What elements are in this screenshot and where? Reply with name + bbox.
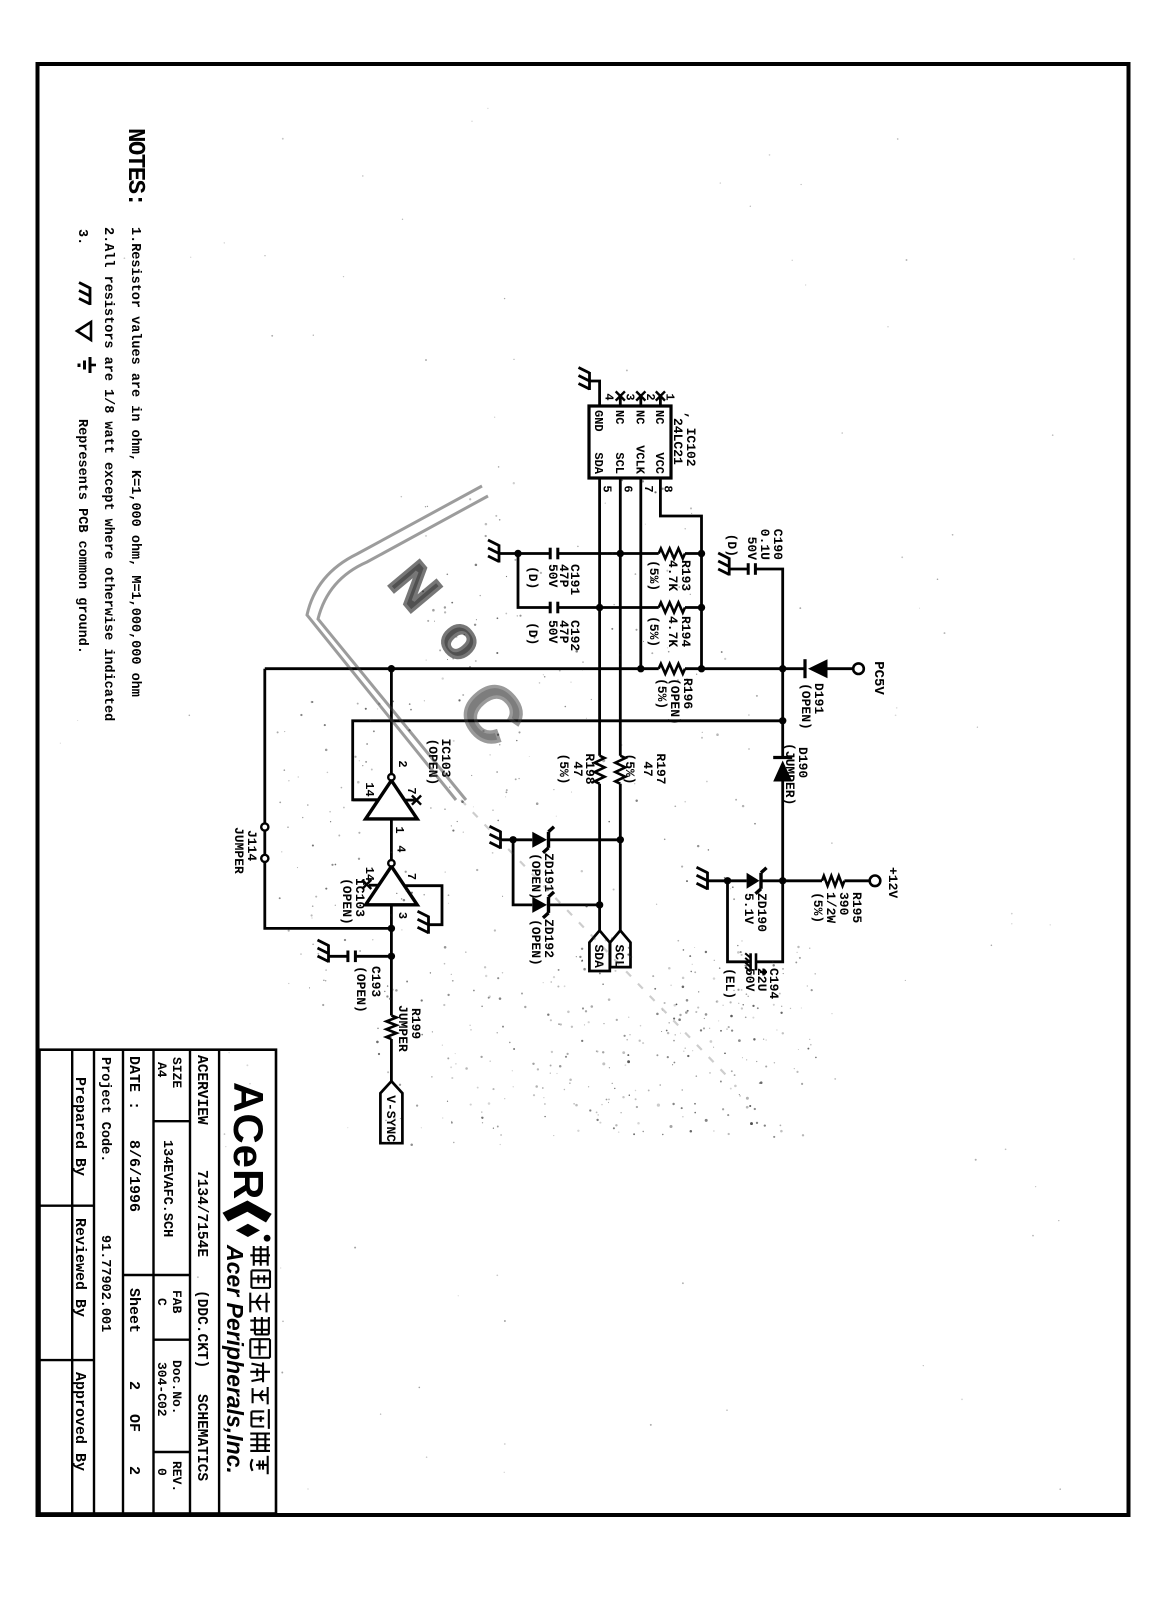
svg-text:A4: A4 bbox=[154, 1062, 169, 1078]
svg-text:SIZE: SIZE bbox=[169, 1057, 184, 1088]
note 3 signal ground symbol bbox=[77, 322, 91, 340]
svg-text:GND: GND bbox=[591, 410, 605, 432]
ground for gate2 pin7 bbox=[427, 916, 430, 934]
wire gate1 output to VCLK net bbox=[390, 669, 393, 775]
svg-text:2.All resistors are 1/8 watt e: 2.All resistors are 1/8 watt except wher… bbox=[100, 227, 115, 721]
resistor R196 (OPEN) bbox=[659, 664, 685, 674]
svg-text:3: 3 bbox=[395, 912, 409, 919]
svg-text:(5%): (5%) bbox=[556, 753, 571, 784]
zener ZD191 (OPEN) bbox=[532, 832, 547, 848]
svg-text:JUMPER: JUMPER bbox=[231, 827, 246, 874]
flag SDA bbox=[589, 931, 609, 972]
junction rail end bbox=[698, 665, 705, 672]
svg-text:NC: NC bbox=[632, 410, 646, 424]
svg-text:(5%): (5%) bbox=[810, 892, 825, 923]
resistor R193 SCL pullup bbox=[685, 552, 702, 555]
junction rail-R193 bbox=[698, 550, 705, 557]
svg-text:5.1V: 5.1V bbox=[741, 893, 756, 924]
gate2 output wire bbox=[390, 905, 393, 1016]
svg-text:Approved By: Approved By bbox=[71, 1372, 88, 1471]
junction ZD190 ground node bbox=[724, 877, 731, 884]
svg-text:47: 47 bbox=[640, 761, 655, 777]
diode D191 (OPEN) bbox=[808, 659, 828, 678]
svg-text:5: 5 bbox=[600, 485, 614, 492]
capacitor C191 bbox=[556, 548, 559, 560]
svg-text:(D): (D) bbox=[724, 534, 739, 557]
svg-text:4: 4 bbox=[602, 393, 616, 400]
junction SCL-R193 bbox=[617, 550, 624, 557]
wire D190 line bbox=[781, 669, 784, 758]
svg-text:(OPEN): (OPEN) bbox=[798, 683, 813, 730]
flag SCL bbox=[610, 931, 630, 968]
svg-text:4.7K: 4.7K bbox=[665, 616, 680, 647]
svg-text:1: 1 bbox=[662, 393, 676, 400]
svg-text:(5%): (5%) bbox=[646, 616, 661, 647]
C194 plus sign bbox=[762, 969, 764, 976]
svg-text:(OPEN): (OPEN) bbox=[339, 878, 354, 925]
svg-text:C: C bbox=[154, 1298, 169, 1306]
svg-text:304-C02: 304-C02 bbox=[154, 1362, 169, 1417]
wire VCLK net down to J114 bbox=[263, 669, 266, 824]
svg-text:(D): (D) bbox=[525, 622, 540, 645]
wire D191 to VCLK node bbox=[685, 667, 805, 670]
junction ZD191-ZD192 ground node bbox=[509, 836, 516, 843]
svg-text:(EL): (EL) bbox=[722, 968, 737, 999]
svg-text:NOTES:: NOTES: bbox=[121, 128, 148, 205]
title block frame bbox=[40, 1050, 277, 1514]
wire VCC pin8 to pullup rail bbox=[660, 478, 701, 669]
junction C190/D190 branch bbox=[779, 665, 786, 672]
resistor R199 JUMPER bbox=[386, 1016, 396, 1040]
note 3 earth ground symbol bbox=[89, 357, 92, 373]
svg-text:(5%): (5%) bbox=[654, 678, 669, 709]
svg-text:Reviewed By: Reviewed By bbox=[71, 1218, 88, 1317]
capacitor C193 (OPEN) bbox=[354, 951, 357, 963]
svg-text:VCLK: VCLK bbox=[632, 445, 646, 475]
svg-text:2: 2 bbox=[125, 1466, 142, 1475]
inverter IC103 gate A bbox=[366, 780, 418, 819]
junction rail-R194 bbox=[698, 604, 705, 611]
svg-text:JUMPER: JUMPER bbox=[395, 1005, 410, 1052]
wire C194 loop bbox=[728, 881, 751, 962]
ground for C193 bbox=[327, 945, 330, 963]
svg-text:8/6/1996: 8/6/1996 bbox=[125, 1140, 142, 1212]
junction gate2out-J114 bbox=[388, 925, 395, 932]
resistor R197 on SCL bbox=[615, 756, 625, 784]
wire J114 to gate2 output bbox=[265, 862, 392, 928]
junction SCL-ZD191 bbox=[617, 836, 624, 843]
title block vertical dividers bbox=[154, 1120, 191, 1122]
gate1 pin14 stub bbox=[353, 798, 379, 801]
wire ZD191 from SCL bbox=[549, 838, 621, 841]
capacitor C190 bbox=[754, 563, 757, 575]
svg-text:+12V: +12V bbox=[885, 867, 900, 898]
svg-text:Acer Peripherals,Inc.: Acer Peripherals,Inc. bbox=[222, 1244, 248, 1474]
svg-text:SDA: SDA bbox=[591, 452, 605, 474]
svg-text:(OPEN): (OPEN) bbox=[353, 966, 368, 1013]
resistor R195 bbox=[822, 876, 844, 886]
Acer gem logo chevron bbox=[223, 1201, 272, 1223]
Acer gem logo dot bbox=[264, 1235, 271, 1242]
photocopy speckle noise bbox=[60, 108, 1075, 1490]
svg-text:2: 2 bbox=[125, 1381, 142, 1390]
svg-text:VCC: VCC bbox=[652, 452, 666, 474]
svg-text:REV.: REV. bbox=[169, 1461, 184, 1492]
capacitor C192 bbox=[558, 606, 600, 609]
resistor R194 SDA pullup bbox=[685, 606, 702, 609]
note 3 PCB ground symbol bbox=[89, 287, 92, 305]
zener ZD190 5.1V bbox=[747, 873, 760, 889]
ground for ZD191/ZD192 bbox=[499, 831, 502, 849]
svg-text:7134/7154E: 7134/7154E bbox=[193, 1170, 209, 1257]
wire ZD192 from SDA bbox=[549, 904, 600, 907]
Acer gem logo diamond bbox=[236, 1224, 260, 1237]
svg-text:SCHEMATICS: SCHEMATICS bbox=[193, 1394, 209, 1481]
svg-text:NC: NC bbox=[652, 410, 666, 424]
svg-text:4.7K: 4.7K bbox=[665, 560, 680, 591]
wire C193 branch bbox=[355, 955, 391, 958]
svg-text:50V: 50V bbox=[742, 968, 757, 992]
svg-text:50V: 50V bbox=[545, 620, 560, 644]
svg-text:Sheet: Sheet bbox=[125, 1288, 142, 1333]
wire SCL pin6 bbox=[619, 478, 622, 756]
wire PC5V down bbox=[828, 667, 854, 670]
svg-text:47: 47 bbox=[570, 761, 585, 777]
zener ZD192 (OPEN) bbox=[532, 897, 547, 913]
wire between gates bbox=[390, 819, 393, 860]
ground for C191/C192 bbox=[498, 545, 501, 563]
svg-text:1.Resistor values are in ohm,: 1.Resistor values are in ohm, K=1,000 oh… bbox=[127, 227, 142, 697]
faint stamp text No bbox=[377, 550, 543, 762]
junction gate1 output node bbox=[388, 665, 395, 672]
svg-text:(D): (D) bbox=[525, 566, 540, 589]
junction SDA-R194 bbox=[596, 604, 603, 611]
svg-text:91.77902.001: 91.77902.001 bbox=[97, 1235, 112, 1332]
ground for C190 bbox=[728, 558, 731, 576]
svg-text:Project Code.: Project Code. bbox=[97, 1057, 112, 1162]
svg-text:24LC21: 24LC21 bbox=[670, 418, 685, 465]
gate2 pin7 wire to ground bbox=[404, 886, 442, 925]
junction D190-R195 node bbox=[779, 877, 786, 884]
wire C192 to ground node bbox=[518, 554, 550, 608]
ground for IC102 pin 4 bbox=[588, 372, 591, 390]
junction SDA-ZD192 bbox=[596, 901, 603, 908]
IC102 pin 1 stub (NC) bbox=[659, 394, 662, 406]
svg-text:2: 2 bbox=[395, 760, 409, 767]
svg-text:DATE :: DATE : bbox=[125, 1056, 142, 1110]
wire to IC103 pin14 bbox=[353, 721, 783, 800]
svg-text:ACERVIEW: ACERVIEW bbox=[193, 1055, 209, 1125]
svg-text:C193: C193 bbox=[368, 966, 383, 997]
svg-text:NC: NC bbox=[612, 410, 626, 424]
svg-text:Represents PCB common ground.: Represents PCB common ground. bbox=[74, 419, 89, 654]
svg-text:V-SYNC: V-SYNC bbox=[383, 1095, 398, 1142]
jumper J114 bbox=[261, 823, 268, 830]
svg-text:134EVAFC.SCH: 134EVAFC.SCH bbox=[159, 1140, 174, 1237]
svg-text:50V: 50V bbox=[744, 537, 759, 561]
svg-text:2: 2 bbox=[643, 393, 657, 400]
svg-text:(5%): (5%) bbox=[622, 753, 637, 784]
svg-text:FAB: FAB bbox=[169, 1290, 184, 1314]
junction C193 tee bbox=[388, 953, 395, 960]
svg-text:(OPEN): (OPEN) bbox=[528, 919, 543, 966]
svg-text:SCL: SCL bbox=[612, 452, 626, 474]
svg-text:SCL: SCL bbox=[612, 945, 627, 969]
+12V terminal bbox=[870, 876, 881, 887]
svg-text:50V: 50V bbox=[545, 564, 560, 588]
svg-text:7: 7 bbox=[404, 873, 418, 880]
gate2 pin14 stub NC bbox=[369, 884, 378, 887]
capacitor C194 22U (EL) bbox=[755, 953, 758, 970]
svg-text:Prepared By: Prepared By bbox=[71, 1077, 88, 1176]
diode D190 (JUMPER) bbox=[773, 761, 792, 782]
wire SDA pin5 bbox=[598, 478, 601, 756]
svg-text:3: 3 bbox=[622, 393, 636, 400]
svg-text:6: 6 bbox=[620, 485, 634, 492]
wire VCLK pin7 bbox=[639, 478, 642, 669]
svg-text:OF: OF bbox=[125, 1414, 142, 1432]
junction VCLK end bbox=[637, 665, 644, 672]
svg-text:(DDC.CKT): (DDC.CKT) bbox=[193, 1290, 209, 1368]
svg-text:14: 14 bbox=[362, 782, 376, 796]
inverter IC103 gate B bbox=[366, 866, 418, 905]
svg-text:(5%): (5%) bbox=[646, 560, 661, 591]
ground for ZD190 bbox=[706, 872, 709, 890]
svg-text:ACeR: ACeR bbox=[225, 1082, 272, 1200]
svg-text:(JUMPER): (JUMPER) bbox=[782, 743, 797, 805]
IC102 pin 2 stub (NC) bbox=[639, 394, 642, 406]
junction C191-C192 ground node bbox=[514, 550, 521, 557]
svg-text:14: 14 bbox=[362, 867, 376, 881]
Acer Chinese company name bbox=[250, 1246, 270, 1266]
IC102 pin 3 stub (NC) bbox=[619, 394, 622, 406]
svg-text:PC5V: PC5V bbox=[870, 661, 886, 695]
faint stamp border bbox=[307, 486, 488, 800]
PC5V terminal bbox=[853, 663, 864, 674]
flag V-SYNC bbox=[380, 1081, 402, 1143]
svg-text:1: 1 bbox=[392, 826, 406, 833]
resistor R198 on SDA bbox=[595, 756, 605, 784]
IC U-IC102 24LC21 box bbox=[589, 406, 671, 478]
wire to C190 bbox=[755, 569, 782, 669]
IC102 pin 4 wire to ground bbox=[590, 381, 600, 406]
junction D190 line to IC103 supply bbox=[779, 717, 786, 724]
gate1 pin7 stub NC bbox=[405, 799, 415, 802]
svg-text:0: 0 bbox=[154, 1468, 169, 1476]
svg-text:7: 7 bbox=[641, 485, 655, 492]
svg-text:4: 4 bbox=[394, 845, 408, 852]
svg-text:7: 7 bbox=[404, 787, 418, 794]
svg-text:Doc.No.: Doc.No. bbox=[169, 1360, 184, 1415]
title block horizontal dividers bbox=[218, 1050, 220, 1514]
svg-text:3.: 3. bbox=[74, 229, 89, 245]
wire +12V to R195 bbox=[844, 879, 869, 882]
